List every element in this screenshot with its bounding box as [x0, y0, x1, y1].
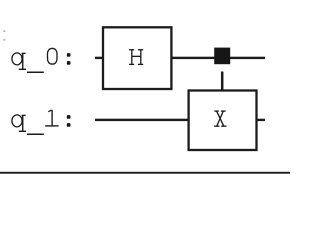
- gate X letter: [214, 111, 226, 126]
- gate X box: [189, 91, 257, 151]
- wire q_1: [95, 119, 265, 121]
- bottom classical line: [0, 172, 290, 174]
- wire q_0: [95, 57, 265, 59]
- faint gray colon (cropped label at left edge): [3, 30, 5, 41]
- gate H box: [103, 27, 171, 89]
- qubit label q_1: [12, 110, 71, 134]
- qubit label q_0: [12, 48, 71, 72]
- gate H letter: [129, 50, 143, 65]
- control square: [214, 48, 230, 65]
- control vertical connector: [221, 72, 224, 91]
